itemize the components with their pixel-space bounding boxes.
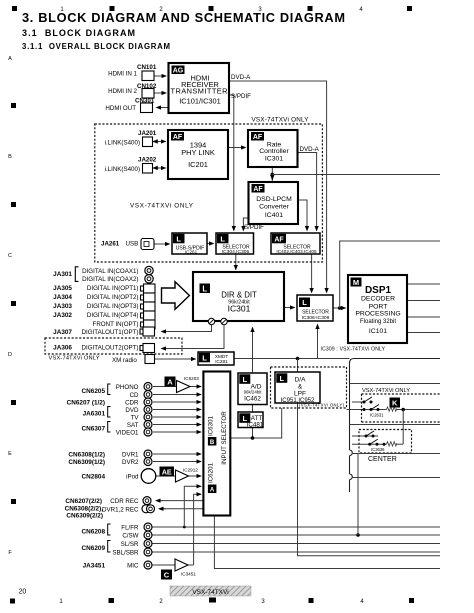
svg-text:IC2631: IC2631 bbox=[370, 413, 384, 418]
svg-text:CN6308(1/2): CN6308(1/2) bbox=[68, 452, 105, 459]
svg-text:CN6207(2/2): CN6207(2/2) bbox=[65, 498, 102, 505]
svg-text:SBL/SBR: SBL/SBR bbox=[112, 550, 139, 557]
svg-text:DVR1,2 REC: DVR1,2 REC bbox=[102, 506, 139, 513]
svg-text:20: 20 bbox=[19, 589, 27, 596]
svg-text:DIGITAL IN(COAX1): DIGITAL IN(COAX1) bbox=[82, 268, 138, 275]
svg-text:CN6307: CN6307 bbox=[82, 426, 106, 433]
svg-text:A: A bbox=[167, 378, 173, 387]
svg-text:CN301: CN301 bbox=[135, 97, 155, 104]
svg-text:2: 2 bbox=[159, 599, 163, 605]
svg-text:JA305: JA305 bbox=[53, 285, 72, 292]
svg-text:VIDEO1: VIDEO1 bbox=[116, 430, 139, 437]
svg-text:USB: USB bbox=[126, 241, 139, 248]
svg-text:FRONT IN(OPT): FRONT IN(OPT) bbox=[93, 321, 139, 328]
svg-text:VSX-74TXVi ONLY: VSX-74TXVi ONLY bbox=[49, 356, 100, 362]
svg-text:PORT: PORT bbox=[369, 304, 388, 311]
svg-text:CDR: CDR bbox=[125, 400, 139, 407]
svg-text:HDMI IN 2: HDMI IN 2 bbox=[108, 88, 137, 95]
svg-text:DIGITALOUT1(OPT): DIGITALOUT1(OPT) bbox=[82, 329, 139, 336]
svg-text:IC402,IC403,IC405: IC402,IC403,IC405 bbox=[276, 249, 317, 254]
svg-text:F: F bbox=[8, 550, 12, 556]
svg-text:CN6309(1/2): CN6309(1/2) bbox=[68, 459, 105, 466]
svg-text:JA261: JA261 bbox=[101, 241, 120, 248]
svg-text:DVD: DVD bbox=[125, 407, 139, 414]
svg-text:IC101/IC301: IC101/IC301 bbox=[179, 97, 221, 106]
svg-text:i.LINK(S400): i.LINK(S400) bbox=[105, 166, 140, 173]
svg-text:AF: AF bbox=[173, 134, 183, 141]
svg-text:E: E bbox=[8, 451, 12, 457]
svg-text:XM radio: XM radio bbox=[112, 357, 137, 364]
svg-text:HDMI IN 1: HDMI IN 1 bbox=[108, 71, 137, 78]
svg-text:IC201: IC201 bbox=[188, 160, 208, 169]
svg-text:VSX-74TXVi: VSX-74TXVi bbox=[192, 589, 228, 596]
svg-text:SELECTOR: SELECTOR bbox=[302, 310, 329, 316]
svg-text:DECODER: DECODER bbox=[361, 296, 395, 303]
svg-text:JA306: JA306 bbox=[53, 345, 72, 352]
svg-text:CENTER: CENTER bbox=[368, 456, 397, 463]
svg-text:IC401: IC401 bbox=[265, 212, 283, 219]
svg-text:C/SW: C/SW bbox=[122, 533, 138, 540]
svg-text:VSX-74TXVi ONLY: VSX-74TXVi ONLY bbox=[252, 117, 310, 124]
svg-text:SAT: SAT bbox=[127, 422, 139, 429]
svg-text:SL/SR: SL/SR bbox=[121, 541, 139, 548]
svg-text:(VSX-74TXVi ONLY): (VSX-74TXVi ONLY) bbox=[299, 403, 345, 408]
svg-text:DSD-LPCM: DSD-LPCM bbox=[256, 196, 292, 203]
svg-text:IC301: IC301 bbox=[228, 304, 251, 314]
svg-text:&: & bbox=[298, 384, 303, 391]
svg-text:D: D bbox=[8, 352, 12, 358]
svg-text:CN2804: CN2804 bbox=[82, 474, 106, 481]
svg-text:IC301: IC301 bbox=[265, 156, 283, 163]
svg-text:DVD-A: DVD-A bbox=[231, 74, 251, 81]
svg-text:IC6301: IC6301 bbox=[208, 415, 215, 436]
svg-text:TV: TV bbox=[131, 415, 140, 422]
svg-text:IC6203: IC6203 bbox=[184, 376, 199, 381]
svg-text:CDR REC: CDR REC bbox=[110, 498, 139, 505]
svg-text:DVR2: DVR2 bbox=[122, 459, 139, 466]
svg-text:VSX-74TXVi ONLY: VSX-74TXVi ONLY bbox=[362, 388, 410, 394]
svg-text:4: 4 bbox=[360, 599, 364, 605]
svg-text:IC306-IC309: IC306-IC309 bbox=[302, 315, 330, 321]
svg-text:L: L bbox=[220, 235, 225, 244]
svg-text:DIGITALOUT2(OPT): DIGITALOUT2(OPT) bbox=[82, 345, 139, 352]
svg-text:L: L bbox=[302, 298, 307, 307]
svg-text:IC3451: IC3451 bbox=[181, 572, 196, 577]
svg-text:PHONO: PHONO bbox=[116, 384, 139, 391]
svg-text:A: A bbox=[8, 56, 12, 62]
svg-text:4: 4 bbox=[359, 7, 363, 13]
svg-text:3.1.1 OVERALL BLOCK DIAGRAM: 3.1.1 OVERALL BLOCK DIAGRAM bbox=[22, 42, 170, 51]
svg-text:CN102: CN102 bbox=[137, 83, 157, 90]
svg-text:AF: AF bbox=[253, 134, 263, 141]
svg-text:B: B bbox=[210, 440, 215, 446]
svg-text:C: C bbox=[8, 253, 12, 259]
svg-text:JA3451: JA3451 bbox=[83, 563, 106, 570]
svg-text:AF: AF bbox=[274, 236, 284, 243]
svg-text:IC101: IC101 bbox=[369, 328, 387, 335]
svg-text:JA304: JA304 bbox=[53, 294, 72, 301]
svg-text:CN6205: CN6205 bbox=[82, 388, 106, 395]
svg-text:DVD-A: DVD-A bbox=[300, 146, 320, 153]
svg-text:AE: AE bbox=[162, 470, 172, 477]
svg-text:AG: AG bbox=[173, 68, 184, 75]
svg-text:HDMI OUT: HDMI OUT bbox=[105, 105, 136, 112]
svg-text:IC304,IC305: IC304,IC305 bbox=[222, 249, 250, 255]
svg-text:JA202: JA202 bbox=[138, 157, 157, 164]
svg-text:L: L bbox=[243, 375, 248, 384]
svg-text:IC281: IC281 bbox=[215, 359, 228, 364]
svg-text:A: A bbox=[210, 487, 215, 493]
svg-text:IC6201: IC6201 bbox=[208, 462, 215, 483]
svg-text:1: 1 bbox=[59, 599, 63, 605]
svg-text:JA302: JA302 bbox=[53, 312, 72, 319]
svg-text:K: K bbox=[392, 399, 398, 408]
svg-text:CN6209: CN6209 bbox=[82, 545, 106, 552]
svg-text:CN6309(2/2): CN6309(2/2) bbox=[66, 513, 103, 520]
svg-text:D/A: D/A bbox=[295, 377, 307, 384]
svg-text:L: L bbox=[176, 235, 181, 244]
svg-text:IC481: IC481 bbox=[247, 422, 264, 429]
svg-text:DIGITAL IN(OPT4): DIGITAL IN(OPT4) bbox=[87, 312, 139, 319]
svg-text:LPF: LPF bbox=[294, 391, 306, 398]
svg-text:L: L bbox=[202, 354, 207, 363]
svg-text:Converter: Converter bbox=[259, 204, 290, 211]
svg-text:i.LINK(S400): i.LINK(S400) bbox=[105, 140, 140, 147]
svg-text:C: C bbox=[164, 571, 170, 580]
svg-text:3. BLOCK DIAGRAM AND SCHEMATIC: 3. BLOCK DIAGRAM AND SCHEMATIC DIAGRAM bbox=[22, 10, 345, 25]
svg-text:DSP1: DSP1 bbox=[365, 285, 392, 296]
svg-text:Controller: Controller bbox=[259, 148, 289, 155]
svg-text:DVR1: DVR1 bbox=[122, 452, 139, 459]
svg-text:M: M bbox=[353, 278, 359, 287]
svg-text:TRANSMITTER: TRANSMITTER bbox=[171, 87, 228, 96]
svg-text:96k/24bit: 96k/24bit bbox=[244, 390, 263, 395]
svg-text:S/PDIF: S/PDIF bbox=[244, 224, 264, 231]
svg-text:iPod: iPod bbox=[126, 474, 139, 481]
svg-text:3: 3 bbox=[261, 599, 265, 605]
svg-text:VSX-74TXVi ONLY: VSX-74TXVi ONLY bbox=[130, 203, 194, 210]
svg-text:IC462: IC462 bbox=[244, 396, 261, 403]
svg-text:IC261: IC261 bbox=[185, 250, 198, 255]
svg-text:CN6308(2/2),: CN6308(2/2), bbox=[65, 506, 104, 513]
svg-text:DIGITAL IN(COAX2): DIGITAL IN(COAX2) bbox=[82, 276, 138, 283]
svg-text:IC2912: IC2912 bbox=[183, 468, 198, 473]
svg-text:JA307: JA307 bbox=[53, 329, 72, 336]
svg-text:AF: AF bbox=[253, 186, 263, 193]
svg-text:IC309 : VSX-74TXVi ONLY: IC309 : VSX-74TXVi ONLY bbox=[321, 347, 386, 353]
svg-text:IC2636: IC2636 bbox=[371, 447, 385, 452]
svg-text:L: L bbox=[280, 374, 285, 383]
svg-text:JA201: JA201 bbox=[138, 130, 157, 137]
svg-text:FL/FR: FL/FR bbox=[121, 525, 139, 532]
svg-text:INPUT SELECTOR: INPUT SELECTOR bbox=[221, 411, 228, 465]
svg-text:3.1 BLOCK DIAGRAM: 3.1 BLOCK DIAGRAM bbox=[22, 28, 135, 38]
svg-text:S/PDIF: S/PDIF bbox=[231, 93, 251, 100]
svg-text:CN6208: CN6208 bbox=[82, 529, 106, 536]
svg-text:CN6207 (1/2): CN6207 (1/2) bbox=[67, 400, 105, 407]
svg-text:MIC: MIC bbox=[127, 563, 139, 570]
svg-text:CN101: CN101 bbox=[137, 64, 157, 71]
svg-text:PHY LINK: PHY LINK bbox=[181, 148, 215, 157]
svg-text:DIGITAL IN(OPT3): DIGITAL IN(OPT3) bbox=[87, 303, 139, 310]
svg-text:L: L bbox=[202, 284, 207, 293]
svg-text:PROCESSING: PROCESSING bbox=[355, 311, 400, 318]
svg-text:JA6301: JA6301 bbox=[83, 411, 106, 418]
svg-text:B: B bbox=[8, 154, 12, 160]
svg-text:DIGITAL IN(OPT1): DIGITAL IN(OPT1) bbox=[87, 285, 139, 292]
svg-text:DIGITAL IN(OPT2): DIGITAL IN(OPT2) bbox=[87, 294, 139, 301]
svg-text:CD: CD bbox=[130, 392, 139, 399]
svg-text:DIR & DIT: DIR & DIT bbox=[221, 291, 257, 300]
svg-text:JA301: JA301 bbox=[53, 271, 72, 278]
svg-text:JA303: JA303 bbox=[53, 303, 72, 310]
svg-text:Floating 32bit: Floating 32bit bbox=[360, 319, 396, 325]
